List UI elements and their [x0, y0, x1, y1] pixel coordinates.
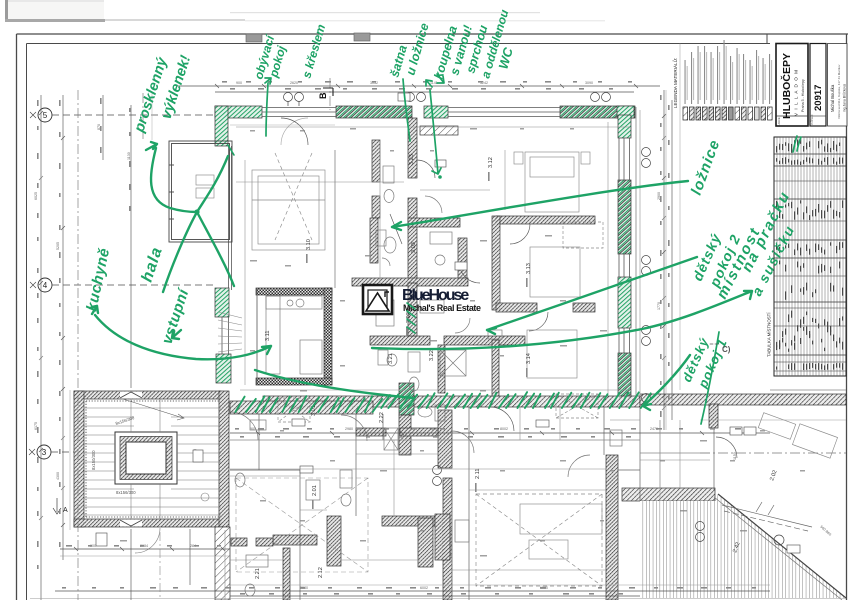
right exterior wall (x 617-631) — [617, 106, 634, 118]
TITLEBLOCK — [672, 40, 847, 376]
svg-text:900: 900 — [236, 81, 242, 85]
GREEN annotations — [83, 7, 801, 424]
staircase block walls — [74, 391, 221, 399]
partitions lower flat thin — [131, 407, 714, 600]
svg-text:3.03: 3.03 — [411, 242, 417, 253]
small green tick top-left wall — [228, 145, 234, 155]
svg-text:3.22: 3.22 — [429, 350, 435, 361]
right lower walls — [606, 455, 618, 600]
left glazed wall (bay) — [229, 146, 232, 290]
lower flat busier lines — [225, 407, 710, 600]
green X over kitchen bay — [163, 156, 228, 292]
bathroom 3.03 fixtures — [376, 230, 396, 266]
scan edge artifact top-left — [5, 0, 9, 22]
column circle pairs right wall — [433, 148, 785, 546]
furniture: bed room 3.14 — [527, 330, 577, 378]
top windows (thin triple lines) — [262, 108, 560, 117]
svg-text:4: 4 — [43, 281, 48, 290]
terrace boxes — [730, 427, 800, 553]
svg-text:8002: 8002 — [500, 427, 508, 431]
staircase treads — [84, 399, 221, 519]
svg-text:A: A — [63, 507, 68, 514]
door arcs — [135, 118, 737, 553]
room 2.01 dashed ceiling triangle — [236, 478, 368, 572]
svg-text:3090: 3090 — [585, 81, 593, 85]
kitchen corridor line — [334, 150, 336, 288]
svg-text:8x150/300: 8x150/300 — [91, 450, 96, 470]
room area sub-labels — [306, 172, 528, 509]
svg-text:2.12: 2.12 — [318, 567, 324, 578]
bathroom partition walls — [438, 345, 445, 393]
svg-text:BlueHouse: BlueHouse — [402, 287, 469, 304]
interior wall: vertical x 408 — [408, 118, 417, 178]
interior dim lines upper flat — [236, 122, 630, 394]
green scribble on wall x406 y300 — [407, 303, 415, 333]
svg-text:AKCE: AKCE — [777, 117, 781, 124]
svg-text:B: B — [318, 92, 328, 99]
balcony edge right — [635, 107, 637, 398]
svg-text:20917: 20917 — [813, 85, 824, 111]
furniture room 2.11 — [520, 504, 602, 559]
bottom wall of 3.03 — [352, 278, 468, 286]
column circle pairs top — [284, 93, 611, 107]
section mark B — [318, 88, 333, 99]
furniture bottom left room — [96, 556, 156, 590]
svg-text:4300: 4300 — [56, 472, 60, 480]
svg-text:1150: 1150 — [733, 452, 737, 460]
svg-text:3.21: 3.21 — [388, 353, 394, 364]
interior wall: vertical x 492 — [492, 216, 500, 310]
kitchen 3.11 interior — [266, 296, 322, 374]
svg-text:Michal Bouška: Michal Bouška — [830, 84, 835, 112]
WALLS — [74, 106, 846, 600]
wall above bathrooms y 335 — [370, 336, 430, 345]
room labels — [193, 154, 779, 579]
svg-text:2980: 2980 — [345, 427, 353, 431]
dash-dot reference lines — [78, 78, 846, 600]
top dimension chain — [177, 84, 660, 92]
svg-text:C): C) — [722, 345, 731, 354]
terrace deck stripes — [640, 494, 846, 598]
staircase wall continues below — [215, 527, 230, 600]
staircase door gaps — [120, 392, 142, 527]
interior wall: horizontal y 216 (between 3.12/3.13) — [496, 216, 595, 224]
fixtures 2.01/2.21 — [245, 480, 320, 596]
svg-text:905: 905 — [250, 427, 256, 431]
bath fixtures lower flat — [235, 420, 622, 542]
svg-text:ing.Jana Brůčková: ing.Jana Brůčková — [843, 84, 847, 112]
LOGO — [363, 285, 481, 314]
right edge bottom furniture — [758, 413, 837, 459]
svg-text:6025: 6025 — [34, 192, 38, 200]
winder stair fan — [218, 312, 242, 352]
svg-text:TABULKA MÍSTNOSTÍ: TABULKA MÍSTNOSTÍ — [767, 312, 772, 357]
green dot node — [194, 209, 199, 214]
svg-text:3.14: 3.14 — [526, 353, 532, 364]
small dimension texts — [34, 81, 832, 590]
wall below 2.22 bathroom — [356, 428, 386, 436]
svg-text:1800: 1800 — [430, 427, 438, 431]
green hatched pier below band (x 400) — [399, 383, 414, 415]
left dimension chains — [39, 95, 131, 600]
wardrobe hatch in 3.23 — [420, 126, 458, 135]
svg-text:V I L L A D O M: V I L L A D O M — [794, 70, 799, 116]
right lower interior — [618, 469, 640, 471]
vertical x408 continues to band — [408, 283, 417, 336]
svg-text:6002: 6002 — [420, 586, 428, 590]
grid marker 3 — [29, 445, 74, 459]
terrace diagonal edge — [718, 494, 846, 598]
svg-text:Praha 5 - Hlubočepy: Praha 5 - Hlubočepy — [801, 79, 805, 112]
grid marker 4 — [30, 278, 215, 292]
small green stroke near table top — [793, 136, 801, 152]
interior wall: horizontal y 218 — [408, 218, 460, 227]
svg-text:KERNA KUCHYN: KERNA KUCHYN — [449, 527, 453, 556]
section letter A marker — [53, 498, 68, 514]
svg-text:8x156/300: 8x156/300 — [116, 490, 136, 495]
staircase insulation dotted — [86, 401, 219, 517]
terrace walkway dashes — [722, 502, 812, 531]
svg-text:2.21: 2.21 — [255, 568, 261, 579]
long bottom wall of upper flat (green hatched band) — [263, 396, 640, 407]
grid marker 5 — [30, 108, 215, 122]
hall dashed squares — [278, 222, 603, 422]
svg-text:3.13: 3.13 — [526, 263, 532, 274]
bottom area extra chains — [60, 555, 230, 557]
dash-dot vertical below staircase — [159, 532, 161, 600]
top exterior wall (green hatched) — [215, 106, 262, 118]
svg-text:5: 5 — [43, 111, 48, 120]
svg-text:2620: 2620 — [290, 81, 298, 85]
continuation of band to right edge (black hatch) — [640, 394, 846, 405]
elevator core — [115, 432, 177, 484]
svg-text:3.11: 3.11 — [265, 331, 271, 341]
svg-text:LEGENDA MATERIÁLŮ:: LEGENDA MATERIÁLŮ: — [672, 58, 678, 108]
right dimension chains — [662, 90, 672, 430]
svg-text:3.10: 3.10 — [306, 239, 312, 250]
svg-text:3.23: 3.23 — [409, 154, 415, 165]
svg-text:2.01: 2.01 — [312, 485, 318, 496]
bathroom 3.22 shower — [408, 350, 466, 391]
lower flat walls — [438, 410, 452, 468]
right wall windows — [619, 138, 630, 353]
svg-text:HLUBOČEPY: HLUBOČEPY — [780, 53, 793, 119]
furniture: bed room 3.12 — [514, 152, 590, 212]
svg-text:Větrná sed 913, Kopista, 417 4: Větrná sed 913, Kopista, 417 43 Martkov — [837, 64, 841, 119]
left exterior wall top piece — [215, 106, 228, 146]
furniture: living room 3.10 sofa — [252, 153, 325, 250]
left verticals extra — [69, 390, 71, 530]
arrow from prosklenny to bay — [146, 142, 157, 150]
kitchen room 3.11 walls — [256, 288, 332, 295]
interior wall: horizontal y 303 — [496, 303, 537, 312]
bay window rectangle (prosklenny vyklenek) — [169, 141, 232, 242]
misc tag boxes in plan — [96, 33, 549, 546]
bottom dimension chains — [30, 431, 846, 599]
svg-text:2.11: 2.11 — [475, 469, 481, 479]
small outdoor furniture left of bay — [196, 175, 214, 198]
kuchyne arrow — [90, 306, 271, 359]
inner dim chains — [230, 439, 640, 441]
bathroom 2.22 fixtures — [384, 405, 445, 450]
svg-text:2.22: 2.22 — [379, 412, 385, 423]
svg-text:3.12: 3.12 — [488, 157, 494, 168]
sheet inner border — [27, 43, 771, 45]
svg-text:5205: 5205 — [56, 242, 60, 250]
svg-text:1130: 1130 — [127, 152, 131, 160]
right margin dim ticks — [39, 136, 666, 520]
furniture: bed room 3.13 — [530, 247, 580, 297]
wall column between 3.10 and 3.23/3.03 — [372, 140, 380, 182]
lower flat room 2.11 dashed ceiling — [476, 494, 602, 586]
sheet outer border — [17, 33, 848, 35]
fixtures and clutter center column — [376, 166, 502, 366]
interior wall: vertical x 458 — [458, 238, 467, 283]
left exterior wall lower pieces (green hatched) — [215, 288, 229, 317]
svg-text:3: 3 — [42, 448, 47, 457]
